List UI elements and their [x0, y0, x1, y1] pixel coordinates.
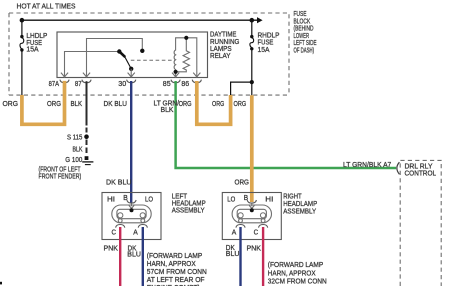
svg-text:A: A: [232, 229, 237, 236]
label LEFT HEADLAMP ASSEMBLY: [172, 193, 206, 214]
svg-text:DRL RLY: DRL RLY: [405, 163, 433, 170]
relay internal wire from 87A to switch contact: [65, 52, 120, 77]
svg-text:FUSE: FUSE: [294, 11, 307, 18]
svg-text:C: C: [112, 229, 117, 236]
svg-text:LT GRN/BLK A7: LT GRN/BLK A7: [343, 162, 391, 169]
svg-text:ORG: ORG: [234, 101, 247, 108]
coil suppression resistor (zigzag): [176, 38, 190, 72]
wire BLK 87 to S115: [86, 81, 88, 125]
svg-text:RUNNING: RUNNING: [210, 39, 239, 46]
label FUSE BLOCK location: [294, 11, 317, 55]
label FRONT OF LEFT FRONT FENDER: [39, 167, 82, 181]
connector bracket into DRL box: [397, 162, 400, 174]
junction node RHDLP output split: [250, 80, 254, 84]
svg-text:B: B: [123, 195, 128, 202]
svg-text:FUSE: FUSE: [258, 40, 274, 47]
svg-text:C: C: [254, 229, 259, 236]
svg-text:A: A: [133, 229, 138, 236]
svg-text:LOWER: LOWER: [294, 33, 310, 40]
svg-text:32CM FROM CONN: 32CM FROM CONN: [268, 279, 327, 286]
svg-text:ORG: ORG: [235, 180, 250, 187]
splice S115: [84, 134, 89, 139]
svg-text:15A: 15A: [258, 47, 270, 54]
label RIGHT HEADLAMP ASSEMBLY: [283, 193, 317, 215]
svg-text:(BEHIND: (BEHIND: [294, 26, 314, 33]
svg-text:LEFT: LEFT: [172, 193, 188, 200]
wire branch to relay 86: [231, 82, 252, 95]
left headlamp assembly: [102, 193, 161, 240]
svg-text:HARN, APPROX: HARN, APPROX: [268, 270, 316, 277]
svg-text:85: 85: [163, 81, 171, 88]
wire PNK left headlamp C: [119, 227, 121, 286]
svg-text:ORG: ORG: [47, 101, 61, 108]
wire LT GRN/BLK 85 to DRL relay control: [176, 81, 396, 168]
svg-text:B: B: [244, 195, 249, 202]
svg-text:LO: LO: [145, 197, 153, 204]
svg-text:87: 87: [75, 81, 82, 88]
RHDLP fuse feed wire: [251, 20, 253, 35]
relay terminal arrows 87A 87 30 85 86: [61, 73, 201, 78]
svg-text:HI: HI: [107, 197, 115, 204]
svg-text:RELAY: RELAY: [210, 53, 231, 60]
svg-text:BLU: BLU: [127, 252, 141, 259]
hot feed wire: [21, 17, 263, 23]
svg-text:HI: HI: [265, 197, 273, 204]
svg-text:57CM FROM CONN: 57CM FROM CONN: [147, 269, 207, 276]
fuse F2 RHDLP 15A: [250, 35, 254, 51]
svg-text:S 115: S 115: [67, 135, 82, 142]
switch pivot node to terminal 30: [129, 67, 133, 71]
fuse block dashed box: [9, 13, 289, 95]
svg-text:AT LEFT REAR OF: AT LEFT REAR OF: [147, 277, 205, 284]
right headlamp assembly: [222, 193, 281, 240]
svg-text:LEFT SIDE: LEFT SIDE: [294, 40, 317, 47]
junction node at LHDLP fuse: [20, 18, 25, 23]
svg-text:G 100: G 100: [65, 157, 82, 164]
svg-text:HOT AT ALL TIMES: HOT AT ALL TIMES: [17, 3, 76, 10]
svg-text:HARN, APPROX: HARN, APPROX: [147, 261, 196, 268]
svg-text:PNK: PNK: [104, 245, 119, 252]
wire BLK S115 to G100 (dashed): [86, 140, 88, 156]
fuse F1 LHDLP 15A: [20, 35, 24, 52]
svg-text:RHDLP: RHDLP: [258, 32, 280, 39]
wire pivot to terminal 30: [130, 69, 132, 77]
svg-text:HEADLAMP: HEADLAMP: [283, 201, 317, 208]
svg-text:(FORWARD LAMP: (FORWARD LAMP: [268, 262, 324, 269]
terminal pin labels: [49, 81, 190, 88]
relay switch blade: [119, 52, 131, 69]
svg-text:BLU: BLU: [226, 251, 240, 258]
page edge mark: [0, 282, 2, 285]
ground G100: [82, 156, 93, 164]
RHDLP fuse output wire: [251, 50, 253, 95]
daytime running lamps relay box U1: [57, 32, 208, 78]
svg-text:FRONT FENDER): FRONT FENDER): [39, 173, 82, 180]
label DAYTIME RUNNING LAMPS RELAY: [210, 32, 239, 61]
svg-text:87A: 87A: [49, 81, 60, 88]
svg-text:ORG: ORG: [3, 101, 19, 108]
wire ORG RHDLP fuse to right headlamp B: [250, 95, 254, 202]
svg-text:86: 86: [181, 81, 189, 88]
label LHDLP FUSE 15A: [26, 33, 47, 54]
svg-text:LAMPS: LAMPS: [210, 46, 232, 53]
relay terminal cups: [60, 80, 202, 83]
node coil bottom / 85: [174, 70, 178, 74]
dashed actuation link switch-coil: [131, 59, 176, 61]
svg-text:BLK: BLK: [73, 146, 83, 153]
svg-text:ORG: ORG: [179, 101, 192, 108]
DRL RLY CONTROL dashed box: [400, 160, 441, 286]
relay internal wire from 87 to switch contact: [87, 39, 143, 77]
svg-text:HEADLAMP: HEADLAMP: [172, 200, 206, 207]
svg-text:30: 30: [118, 81, 126, 88]
wire ORG fuse LHDLP to 87A: [22, 81, 65, 124]
svg-text:CONTROL: CONTROL: [405, 171, 437, 178]
svg-text:BLK: BLK: [71, 101, 83, 108]
svg-text:ORG: ORG: [212, 101, 224, 108]
wire gauge/color labels row: [3, 100, 247, 114]
svg-text:(FORWARD LAMP: (FORWARD LAMP: [147, 253, 203, 260]
svg-text:15A: 15A: [26, 47, 39, 54]
label DRL RLY CONTROL: [405, 163, 437, 177]
LHDLP fuse feed wire: [21, 20, 23, 35]
relay coil (inductor) on 85 leg: [174, 38, 197, 77]
switch contact node 87: [140, 49, 144, 53]
svg-text:ASSEMBLY: ASSEMBLY: [172, 207, 205, 214]
svg-text:BLOCK: BLOCK: [294, 18, 311, 25]
svg-text:LO: LO: [227, 197, 235, 204]
svg-text:PNK: PNK: [247, 245, 262, 252]
junction node at RHDLP fuse: [250, 18, 255, 23]
svg-text:DK BLU: DK BLU: [106, 180, 132, 187]
svg-text:RIGHT: RIGHT: [283, 193, 302, 200]
svg-text:OF DASH): OF DASH): [294, 48, 315, 55]
svg-text:DK BLU: DK BLU: [104, 101, 128, 108]
label RHDLP FUSE 15A: [258, 32, 280, 54]
svg-text:ASSEMBLY: ASSEMBLY: [283, 208, 316, 215]
wire DK BLU left headlamp A: [142, 227, 144, 286]
wire DK BLU right headlamp A: [239, 227, 241, 286]
LHDLP fuse output wire: [21, 52, 23, 96]
switch contact node 87A: [117, 49, 121, 53]
svg-text:DAYTIME: DAYTIME: [210, 32, 237, 39]
note forward lamp harness right: [268, 262, 327, 286]
wire PNK right headlamp C: [262, 227, 264, 286]
wire DK BLU 30 to left headlamp B: [130, 81, 132, 203]
wire ORG 86 to fuse branch: [197, 81, 231, 124]
note forward lamp harness left: [147, 253, 207, 286]
svg-text:BLK: BLK: [161, 107, 174, 114]
node coil top: [184, 36, 188, 40]
